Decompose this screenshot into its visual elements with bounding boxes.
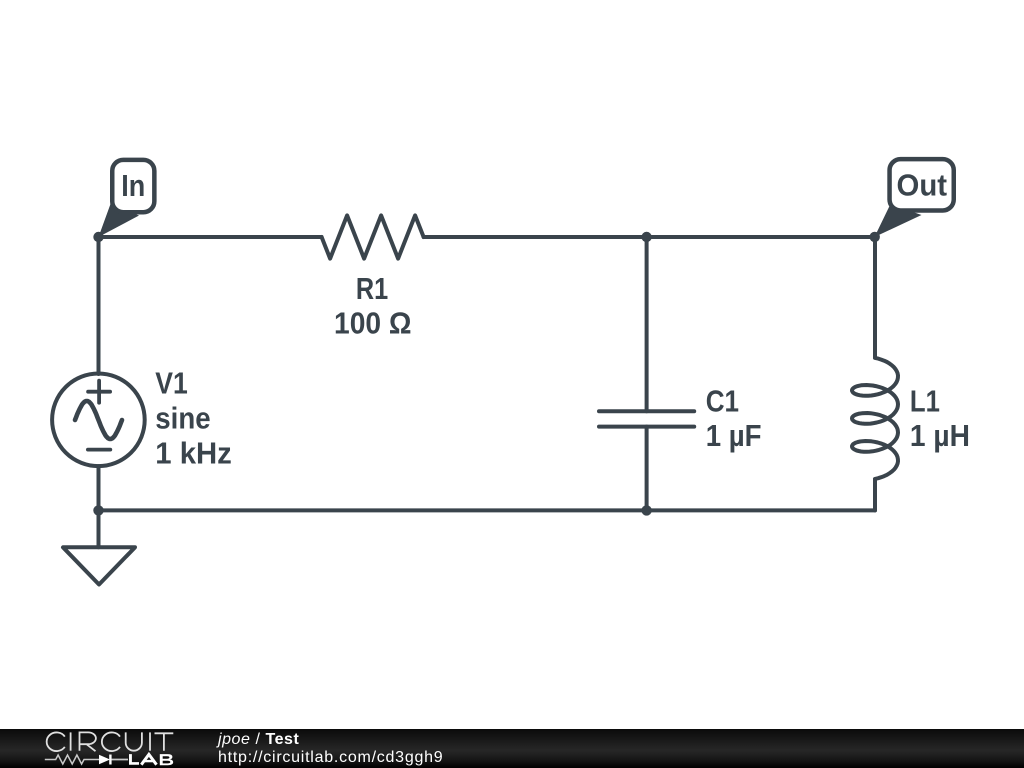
inductor L1 coil <box>852 358 898 479</box>
logo resistor squiggle <box>45 755 99 764</box>
resistor R1 zigzag <box>322 215 424 258</box>
svg-text:L1: L1 <box>910 384 940 419</box>
junction dot node Out <box>870 232 880 242</box>
junction dot C1 bottom <box>641 505 651 515</box>
wire bottom: ground node to L1 bottom <box>99 508 876 512</box>
svg-text:C1: C1 <box>706 384 739 419</box>
svg-text:1 kHz: 1 kHz <box>155 436 232 471</box>
svg-text:1 µH: 1 µH <box>910 418 970 453</box>
svg-text:R1: R1 <box>356 271 388 306</box>
junction dot node In <box>93 232 103 242</box>
logo text LAB: B <box>160 754 173 765</box>
capacitor C1 bottom plate <box>599 425 694 429</box>
svg-text:sine: sine <box>155 401 210 436</box>
wire top right: C1 top node to Out node <box>647 235 875 239</box>
footer bar <box>0 729 1024 768</box>
node flag Out box <box>890 159 954 210</box>
ground symbol triangle <box>63 547 135 584</box>
wire L1 top lead <box>873 237 877 357</box>
svg-text:In: In <box>121 168 145 203</box>
logo letter I <box>70 732 72 750</box>
svg-text:Out: Out <box>897 168 948 203</box>
logo letter U <box>126 732 142 750</box>
V1 minus sign <box>88 448 110 452</box>
junction dot ground node <box>93 505 103 515</box>
svg-text:V1: V1 <box>155 366 188 401</box>
wire ground stub <box>97 510 101 547</box>
junction dot C1 top <box>641 232 651 242</box>
flag tail Out <box>875 204 922 237</box>
wire C1 top lead <box>645 237 649 411</box>
logo letter R <box>80 732 96 751</box>
logo letter T <box>155 733 174 750</box>
capacitor C1 top plate <box>599 409 694 413</box>
logo letter I2 <box>149 732 151 750</box>
V1 sine waveform symbol <box>75 401 122 439</box>
flag tail In <box>99 204 140 237</box>
V1 plus sign <box>88 381 110 403</box>
wire top middle: R1 to C1 top node <box>424 235 647 239</box>
logo letter C <box>47 732 65 751</box>
logo diode <box>99 755 110 765</box>
wire C1 bottom lead <box>645 427 649 511</box>
logo letter C2 <box>102 732 120 751</box>
wire top left: In node to R1 <box>99 235 322 239</box>
wire L1 bottom lead <box>873 480 877 511</box>
wire left upper: In node down to V1 top <box>97 237 101 374</box>
logo text LAB: L <box>129 754 139 765</box>
logo diode out lead <box>112 759 129 761</box>
logo text LAB: A <box>141 754 156 764</box>
wire left lower: V1 bottom to ground node <box>97 466 101 510</box>
svg-text:1 µF: 1 µF <box>706 418 762 453</box>
node flag In box <box>112 160 154 212</box>
svg-text:100 Ω: 100 Ω <box>334 306 412 341</box>
voltage source V1 circle <box>52 374 145 467</box>
footer author/title <box>218 731 443 767</box>
